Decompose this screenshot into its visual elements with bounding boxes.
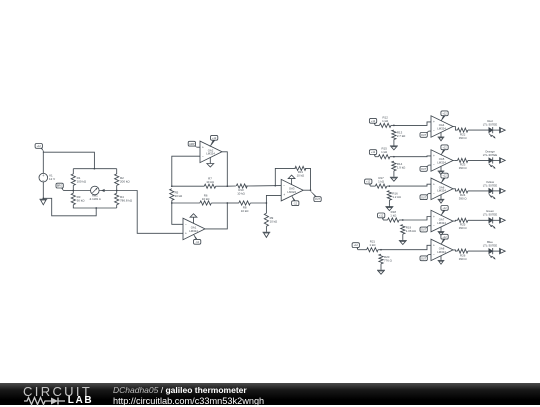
svg-text:+12: +12	[371, 151, 376, 154]
svg-text:390 Ω: 390 Ω	[459, 136, 468, 140]
svg-text:20 kΩ: 20 kΩ	[175, 194, 183, 198]
wire OUT flag to OA4 - input	[429, 130, 432, 132]
wire R7 left lead	[172, 185, 205, 187]
label R3 value	[77, 195, 86, 203]
svg-text:BRG: BRG	[57, 185, 62, 188]
label AM1 value	[89, 194, 101, 202]
wire R4 to bridge bottom	[116, 205, 118, 208]
wire R18 to divider node	[399, 219, 403, 221]
wire R19 bottom lead	[402, 234, 404, 240]
ground below OA6	[438, 195, 445, 203]
svg-text:200 kΩ: 200 kΩ	[120, 179, 130, 183]
LED Orange	[489, 157, 496, 169]
junction bridge left mid	[72, 190, 74, 192]
node OUT flag at OA6 - input	[420, 193, 429, 199]
svg-text:+12: +12	[442, 112, 447, 115]
wire R25 to LED anode	[468, 219, 489, 221]
junction divider node Green	[402, 219, 404, 221]
wire ammeter to bridge right mid	[99, 190, 117, 192]
wire ground node to bridge bottom	[43, 198, 96, 216]
resistor R4	[115, 193, 119, 205]
svg-text:+: +	[433, 244, 435, 248]
label LED Yellow	[483, 180, 497, 188]
label R24 value	[459, 193, 468, 201]
svg-text:1 kΩ: 1 kΩ	[381, 150, 388, 154]
svg-text:10 kΩ: 10 kΩ	[202, 197, 210, 201]
wire R23 to LED anode	[468, 159, 489, 161]
label R10 value	[237, 188, 245, 196]
svg-text:12 V: 12 V	[49, 177, 55, 181]
wire right mid to R4	[116, 191, 118, 194]
wire R2 to right mid	[116, 185, 118, 190]
label R4 value	[120, 195, 133, 203]
label R18 value	[390, 210, 397, 218]
wire +12 flag to R18	[383, 219, 388, 221]
label LED Blue	[483, 240, 497, 248]
ground right of LED Blue	[500, 248, 506, 254]
wire R17 to divider node	[387, 185, 390, 187]
node AMP flag at OA2 + input	[188, 141, 196, 147]
wire R12 to divider node	[391, 124, 394, 126]
svg-text:LM324: LM324	[437, 160, 446, 164]
svg-text:+: +	[433, 215, 435, 219]
svg-text:1 kΩ: 1 kΩ	[390, 214, 397, 218]
wire divider node to OA4 + input	[394, 122, 431, 126]
svg-text:1 kΩ: 1 kΩ	[378, 180, 385, 184]
svg-text:OUT: OUT	[421, 229, 427, 232]
svg-text:LTL-307EE: LTL-307EE	[483, 183, 497, 187]
resistor R15	[378, 155, 390, 159]
node +12 flag row Red	[369, 118, 376, 125]
svg-text:1.2 kΩ: 1.2 kΩ	[392, 195, 401, 199]
svg-text:+12: +12	[212, 137, 217, 140]
label R5 value	[175, 191, 183, 199]
junction OA3 output node	[310, 189, 312, 191]
label R16 value	[392, 191, 401, 199]
junction R6 left node	[171, 202, 173, 204]
label R21 value	[369, 240, 376, 248]
wire R7 right lead	[216, 185, 228, 187]
svg-text:1 kΩ: 1 kΩ	[369, 243, 376, 247]
node OUT flag at OA3 output	[311, 191, 322, 202]
wire R5 to R6 row	[171, 200, 173, 203]
label R6 value	[202, 193, 210, 201]
wire bridge right mid to OA1 + input	[117, 191, 183, 234]
wire R6 right lead	[211, 202, 227, 204]
wire R6 left lead	[172, 202, 200, 204]
wire BRG flag to bridge left mid	[63, 190, 73, 192]
positive supply arrow above OA1	[190, 214, 197, 224]
svg-text:10 kΩ: 10 kΩ	[237, 191, 245, 195]
svg-text:10 kΩ: 10 kΩ	[270, 219, 278, 223]
wire R20 bottom lead	[380, 264, 382, 270]
svg-text:776 Ω: 776 Ω	[384, 259, 393, 263]
wire bridge left top stub	[72, 169, 74, 174]
svg-text:−: −	[433, 163, 435, 167]
label LED Green	[483, 209, 497, 217]
junction bridge top centre	[94, 168, 96, 170]
svg-text:LTL-307EE: LTL-307EE	[483, 123, 497, 127]
wire R1 to mid node	[72, 185, 74, 190]
svg-text:LTL-307EE: LTL-307EE	[483, 153, 497, 157]
label R8 value	[241, 205, 249, 213]
svg-text:+: +	[433, 154, 435, 158]
label R26 value	[459, 253, 468, 261]
wire OA1 - input to R6 row	[172, 203, 183, 224]
svg-text:+12: +12	[442, 175, 447, 178]
wire bridge right top stub	[116, 169, 118, 174]
ground below R19	[399, 240, 407, 245]
svg-text:+: +	[283, 193, 285, 197]
resistor R16	[387, 191, 391, 201]
wire OA7 output to R25	[453, 219, 458, 222]
node +12 flag at OA4 V+	[441, 111, 448, 121]
wire LED cathode to ground	[492, 129, 499, 131]
wire left mid to R3	[72, 191, 74, 194]
svg-text:−: −	[202, 155, 204, 159]
label R15 value	[381, 147, 388, 155]
label R22 value	[459, 132, 468, 140]
svg-text:390 Ω: 390 Ω	[459, 166, 468, 170]
wire R7 node to R10	[227, 185, 236, 187]
svg-text:10 kΩ: 10 kΩ	[297, 173, 305, 177]
node +12 flag row Yellow	[365, 179, 372, 186]
op-amp OA4	[431, 116, 453, 137]
junction OA3 feedback node	[274, 185, 276, 187]
op-amp OA3	[281, 179, 303, 201]
wire OUT flag to OA7 - input	[429, 225, 432, 227]
label R9 value	[270, 216, 278, 224]
footer title text	[113, 385, 264, 407]
ground below OA8	[438, 256, 445, 264]
svg-text:10 kΩ: 10 kΩ	[206, 180, 214, 184]
wire OA6 output to R24	[453, 189, 458, 191]
svg-text:+: +	[202, 146, 204, 150]
voltage source V1	[39, 173, 48, 182]
svg-text:+: +	[433, 120, 435, 124]
wire OA3 output	[303, 189, 310, 191]
op-amp OA1	[183, 218, 205, 240]
wire R14 bottom lead	[393, 171, 395, 177]
svg-text:1 kΩ: 1 kΩ	[382, 119, 389, 123]
ground right of LED Green	[500, 217, 506, 223]
ground right of LED Orange	[500, 157, 506, 163]
svg-text:1.9 kΩ: 1.9 kΩ	[397, 166, 406, 170]
wire to OA3 + input	[266, 195, 281, 203]
resistor R10	[236, 184, 247, 188]
resistor R8	[239, 201, 251, 205]
wire OUT flag to OA6 - input	[429, 192, 432, 194]
svg-text:−: −	[185, 223, 187, 227]
svg-text:10 kΩ: 10 kΩ	[241, 209, 249, 213]
ground below OA5	[438, 166, 445, 174]
node OUT flag at OA5 - input	[420, 165, 429, 171]
wire OUT flag to OA5 - input	[429, 164, 432, 166]
resistor R12	[379, 123, 391, 127]
label R23 value	[459, 163, 468, 171]
wire +12 flag to R17	[370, 185, 375, 187]
svg-text:390 Ω: 390 Ω	[459, 257, 468, 261]
svg-text:LTL-307EE: LTL-307EE	[483, 244, 497, 248]
svg-text:+12: +12	[442, 146, 447, 149]
label R17 value	[378, 176, 385, 184]
wire R9 bottom lead	[265, 226, 267, 231]
svg-text:390 Ω: 390 Ω	[459, 226, 468, 230]
resistor R25	[458, 218, 468, 222]
svg-text:LM324: LM324	[437, 189, 446, 193]
label R20 value	[384, 255, 393, 263]
resistor R19	[401, 225, 405, 235]
svg-text:100 kΩ: 100 kΩ	[77, 179, 87, 183]
ground below R14	[390, 176, 398, 181]
svg-text:+12: +12	[37, 145, 42, 148]
svg-text:OUT: OUT	[421, 257, 427, 260]
svg-text:90 kΩ: 90 kΩ	[77, 199, 86, 203]
svg-text:+12: +12	[371, 120, 376, 123]
resistor R9	[264, 213, 268, 226]
wire divider node to OA6 + input	[389, 184, 431, 186]
wire +12 flag to R21	[358, 249, 367, 251]
label V1 value	[49, 173, 55, 181]
wire R3 to bridge bottom	[73, 205, 116, 208]
ground below OA7	[438, 227, 445, 235]
node -12 flag at OA3 V-	[292, 196, 299, 206]
junction R7 output node	[226, 185, 228, 187]
svg-text:-12: -12	[293, 202, 297, 205]
node BRG flag	[56, 183, 63, 190]
svg-text:+: +	[433, 183, 435, 187]
wire V1 bottom lead	[42, 182, 44, 198]
resistor R23	[458, 158, 468, 162]
svg-text:LTL-307EE: LTL-307EE	[483, 213, 497, 217]
resistor R26	[458, 249, 468, 253]
wire LED cathode to ground	[492, 190, 499, 192]
node -12 flag at OA1 V-	[194, 234, 201, 244]
resistor R1	[71, 174, 75, 186]
node +12 flag at OA2 V+	[210, 135, 218, 146]
junction at V1 ground node	[42, 197, 44, 199]
node +12 flag at OA6 V+	[441, 173, 448, 183]
junction bridge right mid	[116, 190, 118, 192]
LED Blue	[489, 248, 496, 260]
label R2 value	[120, 176, 130, 184]
label R7 value	[206, 177, 214, 185]
wire OA2 - input to feedback column	[172, 156, 200, 186]
LED Red	[489, 127, 496, 139]
svg-text:1.06 kΩ: 1.06 kΩ	[406, 229, 417, 233]
svg-text:-12: -12	[195, 241, 199, 244]
resistor R13	[392, 130, 396, 140]
svg-text:OUT: OUT	[421, 196, 427, 199]
op-amp OA5	[431, 150, 453, 171]
CircuitLab logo	[23, 384, 105, 405]
wire divider node to OA8 + input	[381, 245, 431, 249]
resistor R11	[295, 166, 306, 170]
resistor R6	[200, 201, 212, 205]
resistor R18	[388, 218, 400, 222]
wire R26 to LED anode	[468, 250, 489, 252]
svg-text:−: −	[433, 192, 435, 196]
node OUT flag at OA4 - input	[420, 131, 429, 137]
svg-text:786.8 kΩ: 786.8 kΩ	[120, 199, 133, 203]
label LED Orange	[483, 149, 497, 157]
node +12 flag at OA7 V+	[441, 206, 448, 216]
ground right of LED Red	[500, 127, 506, 133]
svg-text:+12: +12	[354, 244, 359, 247]
wire R13 bottom lead	[393, 140, 395, 146]
svg-text:+12: +12	[366, 181, 371, 184]
LED Green	[489, 217, 496, 229]
wire R21 to divider node	[378, 249, 381, 251]
wire V1 top lead	[42, 152, 44, 173]
wire left mid to ammeter	[73, 190, 90, 192]
svg-text:LM324: LM324	[206, 152, 215, 156]
wire +12 flag to R15	[375, 156, 378, 158]
wire LED cathode to ground	[492, 250, 499, 252]
wire OA2 output	[222, 152, 227, 186]
svg-text:OUT: OUT	[421, 134, 427, 137]
junction divider node Red	[393, 125, 395, 127]
label R13 value	[397, 131, 406, 139]
positive supply arrow above OA3	[288, 175, 295, 185]
resistor R7	[204, 184, 216, 188]
ground below V1	[39, 198, 47, 205]
svg-text:LM324: LM324	[437, 221, 446, 225]
label R11 value	[297, 170, 305, 178]
node +12 flag row Orange	[369, 150, 376, 157]
ground below OA4	[438, 132, 445, 140]
resistor R21	[367, 248, 379, 252]
svg-text:390 Ω: 390 Ω	[459, 197, 468, 201]
svg-text:LM324: LM324	[189, 229, 198, 233]
node +12 flag row Green	[378, 213, 385, 220]
current direction arrow	[101, 189, 104, 192]
svg-text:+12: +12	[442, 236, 447, 239]
svg-text:2.7 kΩ: 2.7 kΩ	[397, 134, 406, 138]
junction R6 output node	[226, 202, 228, 204]
wire from +12 flag to bridge top	[43, 151, 94, 169]
junction OA3 + node	[266, 202, 268, 204]
negative supply arrow below OA2	[207, 157, 214, 167]
junction OA2 feedback node	[171, 185, 173, 187]
wire R9 top lead	[265, 203, 267, 213]
wire R15 to divider node	[390, 156, 394, 158]
resistor R14	[392, 161, 396, 171]
label R12 value	[382, 115, 389, 123]
wire bridge top rail	[73, 168, 116, 170]
svg-text:LM324: LM324	[437, 250, 446, 254]
wire R24 to LED anode	[468, 190, 489, 192]
wire OA1 output	[205, 203, 227, 229]
label LED Red	[483, 119, 497, 127]
label R1 value	[77, 176, 87, 184]
resistor R24	[458, 189, 468, 193]
LED Yellow	[489, 188, 496, 200]
resistor R5	[170, 189, 174, 201]
wire R22 to LED anode	[468, 129, 489, 131]
op-amp OA6	[431, 178, 453, 200]
wire feedback up	[275, 168, 295, 185]
wire OUT flag to OA8 - input	[429, 254, 432, 256]
wire OA4 output to R22	[453, 127, 458, 131]
node OUT flag at OA8 - input	[420, 255, 429, 261]
label R19 value	[406, 225, 417, 233]
junction divider node Blue	[380, 249, 382, 251]
node +12 flag row Blue	[352, 243, 359, 250]
svg-text:AMP: AMP	[189, 143, 195, 146]
wire +12 flag to R12	[375, 124, 379, 126]
svg-text:−: −	[283, 184, 285, 188]
svg-text:LM324: LM324	[287, 190, 296, 194]
wire OA5 output to R23	[453, 159, 458, 161]
wire AMP flag to OA2 +	[197, 146, 200, 148]
svg-text:+: +	[185, 232, 187, 236]
wire R16 bottom lead	[388, 200, 390, 206]
svg-text:−: −	[433, 224, 435, 228]
wire LED cathode to ground	[492, 159, 499, 161]
wire LED cathode to ground	[492, 219, 499, 221]
resistor R20	[379, 254, 383, 264]
svg-text:+12: +12	[442, 207, 447, 210]
node +12 flag at OA8 V+	[441, 234, 448, 244]
op-amp OA7	[431, 210, 453, 232]
wire R8 left lead	[227, 202, 239, 204]
wire divider node to OA5 + input	[394, 155, 431, 158]
ground below R16	[385, 206, 393, 211]
ground below R9	[263, 231, 271, 237]
wire R10 to OA3 - input	[245, 185, 281, 187]
label R14 value	[397, 162, 406, 170]
op-amp OA8	[431, 239, 453, 260]
svg-text:+12: +12	[379, 215, 384, 218]
svg-text:-3.1181 A: -3.1181 A	[89, 197, 101, 201]
svg-text:−: −	[433, 253, 435, 257]
wire divider node to OA7 + input	[403, 217, 431, 221]
op-amp OA2	[200, 141, 222, 163]
ground below R20	[377, 269, 385, 274]
junction divider node Yellow	[389, 185, 391, 187]
resistor R17	[375, 184, 387, 188]
label R25 value	[459, 223, 468, 231]
node OUT flag at OA7 - input	[420, 226, 429, 232]
resistor R3	[71, 193, 75, 205]
svg-text:−: −	[433, 129, 435, 133]
svg-text:LM324: LM324	[437, 126, 446, 130]
junction divider node Orange	[393, 156, 395, 158]
node +12 flag at OA5 V+	[441, 145, 448, 155]
ground below R13	[390, 145, 398, 150]
node +12 supply flag	[35, 144, 43, 151]
svg-text:OUT: OUT	[421, 168, 427, 171]
resistor R22	[458, 128, 468, 132]
svg-text:OUT: OUT	[315, 198, 321, 201]
resistor R2	[115, 174, 119, 186]
junction bridge bottom centre	[95, 207, 97, 209]
wire feedback down to output	[305, 168, 310, 190]
ground right of LED Yellow	[500, 188, 506, 194]
wire OA8 output to R26	[453, 250, 458, 251]
ammeter AM1	[91, 186, 100, 195]
wire R8 to OA3 + node	[250, 202, 266, 204]
